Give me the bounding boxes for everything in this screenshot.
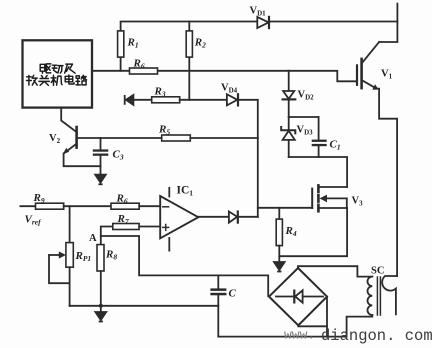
ground (left arrow at R3) bbox=[125, 95, 134, 105]
resistor R7 bbox=[113, 224, 139, 230]
transistor V2 (NPN) bbox=[63, 127, 77, 154]
svg-text:VD3: VD3 bbox=[297, 125, 314, 137]
wire: bridge bottom to right vertical bbox=[298, 325, 327, 326]
wire: top rail left corner down to R1 bbox=[121, 22, 257, 31]
svg-text:IC1: IC1 bbox=[177, 185, 194, 198]
transistor V1 (IGBT) bbox=[357, 42, 379, 90]
transformer core bbox=[377, 277, 380, 315]
svg-text:R9: R9 bbox=[33, 192, 45, 205]
svg-text:diangon. com: diangon. com bbox=[321, 327, 432, 345]
wire: top rail right of VD1 bbox=[271, 21, 398, 23]
wire: R6 rail right segment with jog to V1 gate bbox=[289, 71, 357, 82]
svg-text:V3: V3 bbox=[352, 196, 364, 208]
wire: ground rail bbox=[70, 305, 219, 307]
svg-text:VD4: VD4 bbox=[221, 83, 238, 95]
watermark www.diangon.com bbox=[284, 327, 432, 345]
wire: R7 left lead from node A bbox=[101, 227, 113, 246]
resistor R4 bbox=[276, 208, 282, 262]
resistor R8 bbox=[97, 245, 104, 306]
node: junction dot bbox=[99, 304, 103, 308]
wire: bridge right corner down bbox=[326, 297, 328, 337]
resistor R1 bbox=[120, 57, 122, 71]
resistor R6 (top, in series from box) bbox=[130, 68, 158, 74]
transistor V3 (N-MOSFET) bbox=[312, 185, 347, 211]
op-amp IC1 bbox=[160, 188, 198, 251]
svg-text:RP1: RP1 bbox=[75, 250, 92, 263]
wire: R7 to IC1 plus input bbox=[139, 226, 160, 228]
wire: node A feedback to C top rail bbox=[101, 236, 219, 275]
svg-text:www.: www. bbox=[284, 328, 315, 343]
diode VD4 bbox=[227, 94, 238, 105]
node: VD3/C1 parallel block top bbox=[289, 116, 319, 118]
svg-text:A: A bbox=[89, 233, 97, 244]
svg-text:R3: R3 bbox=[154, 86, 166, 99]
svg-text:R7: R7 bbox=[117, 213, 129, 226]
wire: VD4 to vertical bus, down to IC1 output diode bbox=[238, 100, 258, 217]
svg-text:C3: C3 bbox=[113, 149, 124, 162]
svg-text:R6: R6 bbox=[116, 193, 128, 206]
ground (below R8) bbox=[95, 306, 106, 323]
ground (below R4) bbox=[274, 262, 285, 270]
wire: C top rail to bridge left corner bbox=[218, 275, 268, 296]
capacitor C bbox=[210, 275, 226, 336]
ground (below C3) bbox=[95, 175, 106, 183]
wire: V2 emitter down and right to C3 bottom bbox=[64, 154, 101, 167]
transformer SC secondary winding bbox=[382, 276, 397, 314]
capacitor C1 bbox=[312, 117, 327, 157]
svg-text:VD2: VD2 bbox=[298, 90, 315, 102]
potentiometer RP1 bbox=[49, 206, 73, 306]
svg-text:V2: V2 bbox=[49, 133, 61, 145]
resistor R9 bbox=[36, 203, 64, 209]
wire: R5 right lead to bus bbox=[190, 137, 257, 139]
wire: R3 to VD4 bbox=[180, 99, 227, 101]
wire: V2 collector from box bottom bbox=[61, 108, 76, 132]
svg-text:C1: C1 bbox=[330, 139, 341, 152]
svg-text:Vref: Vref bbox=[25, 214, 43, 227]
resistor R2 bbox=[188, 22, 190, 31]
wire: bottom rail bbox=[218, 336, 346, 338]
svg-text:R4: R4 bbox=[285, 225, 297, 238]
diode D (IC1 output) bbox=[229, 212, 238, 223]
resistor R3 bbox=[152, 97, 180, 103]
svg-text:R2: R2 bbox=[194, 37, 206, 50]
wire: primary bottom lead bbox=[347, 315, 373, 337]
wire: R3 left lead bbox=[133, 99, 151, 101]
wire: block bottom to V3 drain bbox=[289, 157, 347, 187]
wire: IC1 output bbox=[198, 216, 229, 218]
wire: R6b to IC1 minus input bbox=[139, 205, 160, 207]
block U: drive & soft shutdown circuit box bbox=[23, 40, 93, 107]
transformer SC primary winding bbox=[367, 277, 372, 315]
svg-text:R8: R8 bbox=[105, 249, 117, 262]
bridge rectifier bbox=[269, 268, 327, 325]
wire: V3 source down and left to R4 bottom bbox=[279, 208, 347, 256]
diode VD2 (from R6 rail) bbox=[283, 71, 296, 117]
zener diode VD3 bbox=[281, 117, 295, 157]
svg-text:R1: R1 bbox=[127, 37, 139, 50]
wire: V1 emitter down, right, down the right side bbox=[378, 89, 397, 276]
wire: V1 collector to top right terminal bbox=[379, 4, 397, 42]
svg-text:R6: R6 bbox=[133, 58, 145, 71]
wire: diode to bus bbox=[238, 216, 258, 218]
svg-text:C: C bbox=[229, 288, 237, 300]
svg-text:R5: R5 bbox=[158, 124, 170, 137]
wire: V2 base to R5 rail bbox=[77, 137, 162, 139]
diode VD1 bbox=[257, 17, 269, 28]
wire: box right edge to R6 rail bbox=[92, 70, 288, 72]
wire: Vref input bbox=[20, 205, 35, 207]
svg-text:V1: V1 bbox=[381, 69, 393, 81]
wire: C3 bottom lead bbox=[100, 156, 102, 175]
wire: bridge top to V3 source rail B bbox=[298, 266, 372, 276]
wire: V3 gate wire bbox=[258, 207, 312, 209]
capacitor C3 bbox=[93, 149, 109, 155]
resistor R6 (to inverting input) bbox=[111, 203, 139, 209]
wire: C3 top lead bbox=[100, 138, 102, 149]
svg-text:VD1: VD1 bbox=[250, 6, 267, 18]
resistor R5 bbox=[162, 135, 191, 141]
wire: R9 to R6b with RP1 tap bbox=[64, 205, 111, 207]
text: block caption (drive & soft shutdown circuit) bbox=[27, 64, 87, 86]
svg-text:SC: SC bbox=[371, 266, 384, 277]
